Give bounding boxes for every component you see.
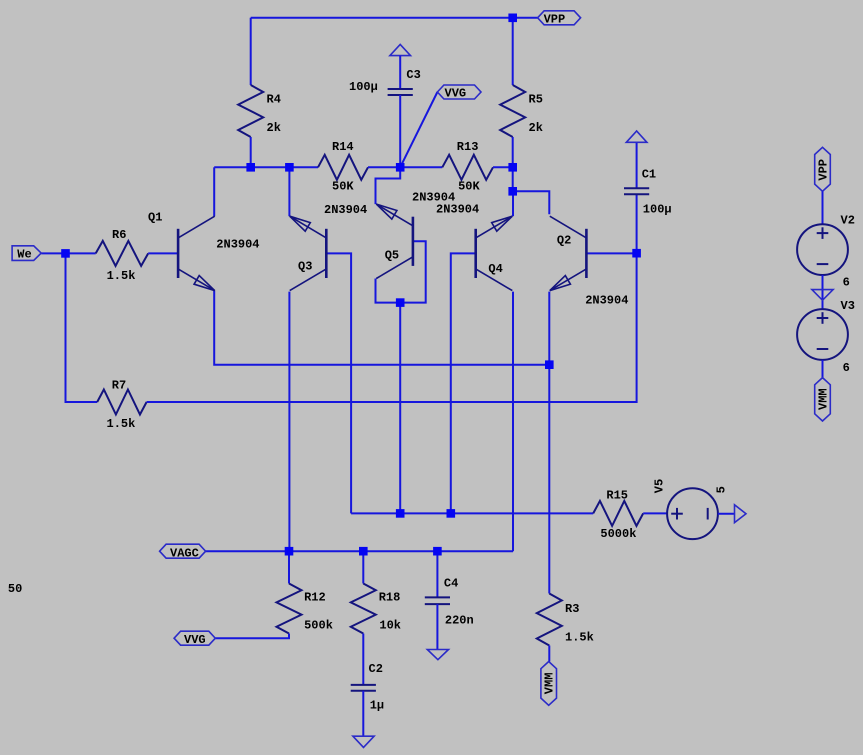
- wire C2 bottom lead: [362, 691, 364, 736]
- label R3: [565, 602, 579, 616]
- wire feedback left drop: [66, 253, 98, 402]
- svg-text:R5: R5: [529, 92, 543, 106]
- svg-text:2N3904: 2N3904: [216, 238, 259, 252]
- label R7: [112, 379, 126, 393]
- ground flag above C3: [390, 44, 411, 55]
- svg-text:Q1: Q1: [148, 211, 162, 225]
- svg-text:R3: R3: [565, 602, 579, 616]
- label C1: [642, 168, 656, 182]
- node junction: [433, 547, 442, 556]
- label R15 value 5000k: [600, 527, 636, 541]
- ground between V2 V3: [812, 290, 833, 301]
- svg-text:Q2: Q2: [557, 233, 571, 247]
- label V5: [653, 479, 667, 493]
- node junction: [246, 163, 255, 172]
- wire C1 top lead: [636, 142, 638, 188]
- svg-text:2k: 2k: [267, 121, 281, 135]
- svg-text:50: 50: [8, 582, 22, 596]
- node junction: [61, 249, 70, 258]
- wire VAGC row: [206, 550, 514, 552]
- label Q2: [557, 233, 571, 247]
- label C1 value 100u: [643, 203, 672, 217]
- label R14: [332, 140, 354, 154]
- svg-text:VPP: VPP: [816, 159, 830, 181]
- svg-text:R14: R14: [332, 140, 354, 154]
- wire Q3 emitter: [288, 167, 290, 216]
- label C3: [406, 68, 420, 82]
- label We: [17, 248, 31, 262]
- voltage source V3: [797, 309, 848, 360]
- svg-text:R4: R4: [267, 92, 281, 106]
- svg-text:C4: C4: [444, 576, 458, 590]
- transistor Q5: [376, 204, 413, 278]
- label Q1: [148, 211, 162, 225]
- wire R4 bottom lead: [250, 137, 252, 167]
- wire Q4 collector drop: [512, 292, 514, 552]
- wire C3 bottom lead: [399, 95, 401, 167]
- svg-text:C3: C3: [406, 68, 420, 82]
- svg-text:C1: C1: [642, 168, 656, 182]
- wire R5 bottom lead: [512, 137, 514, 167]
- svg-text:Q4: Q4: [488, 262, 502, 276]
- wire R7 to C1 bottom: [147, 194, 637, 402]
- voltage source V2: [797, 224, 848, 275]
- svg-text:R6: R6: [112, 228, 126, 242]
- label V5 value 5: [715, 486, 729, 493]
- svg-text:6: 6: [843, 275, 850, 289]
- node junction: [359, 547, 368, 556]
- wire collector rail y167: [214, 166, 318, 168]
- svg-text:VMM: VMM: [543, 673, 557, 695]
- svg-text:R12: R12: [304, 591, 326, 605]
- wire Q4 base: [451, 253, 476, 513]
- label Q4: [488, 262, 502, 276]
- node junction: [508, 187, 517, 196]
- wire Q2 emitter drop: [548, 292, 550, 365]
- wire Q2 collector link: [513, 191, 550, 214]
- label VAGC: [170, 547, 199, 561]
- svg-text:VAGC: VAGC: [170, 547, 199, 561]
- label R7 value 1.5k: [107, 417, 136, 431]
- wire We to junction: [41, 252, 65, 254]
- svg-text:R7: R7: [112, 379, 126, 393]
- capacitor C4: [425, 597, 450, 604]
- node junction: [632, 249, 641, 258]
- svg-text:V5: V5: [653, 479, 667, 493]
- svg-text:2N3904: 2N3904: [436, 202, 479, 216]
- wire R15 to V5: [643, 512, 667, 514]
- svg-text:VVG: VVG: [445, 87, 467, 101]
- svg-text:5: 5: [715, 486, 729, 493]
- wire R18 top lead: [362, 551, 364, 583]
- node junction: [396, 509, 405, 518]
- label C4: [444, 576, 458, 590]
- wire R13 to R5 node: [493, 166, 513, 168]
- voltage source V5: [667, 488, 718, 539]
- wire V3 to VMM flag: [822, 360, 824, 378]
- svg-text:VPP: VPP: [544, 13, 566, 27]
- svg-text:R18: R18: [379, 591, 401, 605]
- wire Q5 emitter link: [376, 167, 401, 204]
- svg-text:220n: 220n: [445, 614, 474, 628]
- flag port We: [12, 246, 41, 261]
- wire R3 to VMM flag: [548, 646, 550, 662]
- svg-text:V3: V3: [841, 299, 855, 313]
- svg-text:1.5k: 1.5k: [565, 630, 594, 644]
- ground below C2: [353, 736, 374, 747]
- wire Q5 collector link: [376, 241, 426, 302]
- node junction: [508, 163, 517, 172]
- wire R12 top lead: [288, 551, 290, 583]
- label C3 value 100u: [349, 80, 378, 94]
- svg-text:Q5: Q5: [385, 248, 399, 262]
- svg-text:2N3904: 2N3904: [324, 203, 367, 217]
- wire R12 to VVG flag: [215, 634, 289, 639]
- svg-text:VMM: VMM: [816, 388, 830, 410]
- capacitor C3: [388, 89, 413, 95]
- capacitor C2: [351, 685, 376, 691]
- wire R14 to node: [368, 166, 400, 168]
- svg-text:100µ: 100µ: [349, 80, 378, 94]
- wire C4 bottom lead: [436, 604, 438, 649]
- wire bias row: [351, 512, 593, 514]
- ground flag right of V5: [735, 505, 747, 523]
- node junction: [285, 547, 294, 556]
- wire V5 to ground: [718, 513, 735, 515]
- transistor Q2: [550, 216, 587, 290]
- resistor R6: [96, 241, 149, 266]
- svg-text:50K: 50K: [458, 180, 480, 194]
- wire R4 top lead: [250, 18, 252, 85]
- label R5 value 2k: [529, 121, 543, 135]
- label R5: [529, 92, 543, 106]
- wire node to R13: [400, 166, 442, 168]
- transistor Q3: [290, 216, 327, 290]
- wire C4 top lead: [436, 551, 438, 597]
- ground below C4: [427, 650, 448, 660]
- flag VPP right: [815, 147, 831, 191]
- label VPP top: [544, 13, 566, 27]
- wire Q2 base: [586, 252, 636, 254]
- label 50: [8, 582, 22, 596]
- flag VAGC: [160, 544, 206, 558]
- wire Q3 base: [326, 253, 351, 513]
- wire emitter node to R3: [548, 365, 550, 594]
- wire Q5 node drop: [399, 303, 401, 514]
- label VMM right: [816, 388, 830, 410]
- wire Q4 emitter link: [512, 191, 514, 216]
- svg-text:6: 6: [843, 361, 850, 375]
- wire R6 to Q1 base: [148, 252, 178, 254]
- node junction: [285, 163, 294, 172]
- resistor R5: [500, 85, 525, 137]
- resistor R3: [537, 594, 562, 646]
- label R14 value 50K: [332, 180, 354, 194]
- label R15: [606, 488, 628, 502]
- transistor Q1: [178, 216, 215, 290]
- svg-text:1.5k: 1.5k: [107, 417, 136, 431]
- label VVG upper: [445, 87, 467, 101]
- label C4 value 220n: [445, 614, 474, 628]
- transistor Q4: [476, 216, 513, 290]
- svg-text:2k: 2k: [529, 121, 543, 135]
- label Q1 model 2N3904: [216, 238, 259, 252]
- label VMM lower: [543, 673, 557, 695]
- ground flag above C1: [626, 131, 647, 142]
- wire Q1 emitter rail: [214, 291, 549, 365]
- wire VPP top rail: [251, 17, 538, 19]
- label V2: [841, 213, 855, 227]
- label Q5 model 2N3904: [412, 190, 455, 204]
- wire R5 top lead: [512, 18, 514, 85]
- label R4: [267, 92, 281, 106]
- wire VVG diagonal: [400, 92, 437, 167]
- svg-text:R15: R15: [606, 488, 628, 502]
- svg-text:C2: C2: [369, 662, 383, 676]
- label V3: [841, 299, 855, 313]
- node junction: [447, 509, 456, 518]
- label C2 value 1u: [370, 699, 384, 713]
- svg-text:2N3904: 2N3904: [585, 294, 628, 308]
- node junction: [508, 14, 517, 23]
- svg-text:50K: 50K: [332, 180, 354, 194]
- label V2 value 6: [843, 275, 850, 289]
- resistor R7: [97, 390, 146, 415]
- resistor R18: [351, 584, 376, 634]
- label Q2 model 2N3904: [585, 294, 628, 308]
- label R6 value 1.5k: [107, 269, 136, 283]
- label C2: [369, 662, 383, 676]
- node junction: [545, 360, 554, 369]
- flag VMM right: [815, 378, 831, 421]
- flag VPP top: [538, 11, 581, 25]
- resistor R15: [593, 501, 643, 526]
- svg-text:10k: 10k: [379, 619, 401, 633]
- wire V2 to V3: [822, 275, 824, 309]
- svg-text:5000k: 5000k: [600, 527, 636, 541]
- svg-text:VVG: VVG: [184, 633, 206, 647]
- resistor R4: [238, 85, 263, 137]
- label Q3: [298, 260, 312, 274]
- svg-text:V2: V2: [841, 213, 855, 227]
- svg-text:500k: 500k: [304, 619, 333, 633]
- wire R5node to Q2node: [512, 167, 514, 191]
- wire R18 to C2: [362, 634, 364, 685]
- flag VVG lower: [174, 631, 215, 645]
- resistor R13: [442, 155, 493, 180]
- wire C3 top lead: [399, 56, 401, 89]
- node junction: [396, 163, 405, 172]
- label R12 value 500k: [304, 619, 333, 633]
- label R18 value 10k: [379, 619, 401, 633]
- label R6: [112, 228, 126, 242]
- label R3 value 1.5k: [565, 630, 594, 644]
- flag VVG upper: [437, 85, 481, 99]
- label R13 value 50K: [458, 180, 480, 194]
- label VVG lower: [184, 633, 206, 647]
- label Q3 model 2N3904: [324, 203, 367, 217]
- wire VPP flag to V2: [822, 191, 824, 224]
- label VPP right: [816, 159, 830, 181]
- label Q5: [385, 248, 399, 262]
- wire Q3 collector drop: [288, 292, 290, 552]
- label R18: [379, 591, 401, 605]
- wire junction to R6: [66, 252, 96, 254]
- capacitor C1: [624, 188, 649, 194]
- label R12: [304, 591, 326, 605]
- label R13: [457, 140, 479, 154]
- svg-text:We: We: [17, 248, 31, 262]
- label R4 value 2k: [267, 121, 281, 135]
- resistor R12: [277, 584, 302, 634]
- svg-text:Q3: Q3: [298, 260, 312, 274]
- svg-text:1µ: 1µ: [370, 699, 384, 713]
- wire Q1 collector: [213, 167, 215, 216]
- node junction: [396, 298, 405, 307]
- svg-text:1.5k: 1.5k: [107, 269, 136, 283]
- svg-text:R13: R13: [457, 140, 479, 154]
- svg-text:100µ: 100µ: [643, 203, 672, 217]
- label Q4 model 2N3904: [436, 202, 479, 216]
- resistor R14: [318, 155, 368, 180]
- label V3 value 6: [843, 361, 850, 375]
- flag VMM lower: [541, 662, 557, 706]
